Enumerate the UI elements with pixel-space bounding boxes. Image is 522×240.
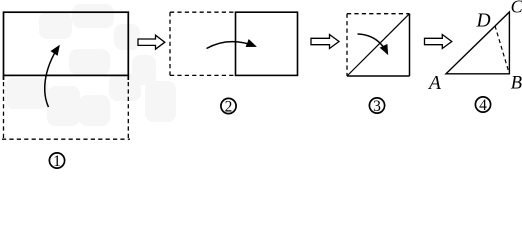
svg-text:D: D bbox=[476, 11, 491, 32]
svg-text:3: 3 bbox=[373, 98, 381, 115]
svg-text:1: 1 bbox=[53, 153, 61, 170]
svg-text:B: B bbox=[511, 74, 522, 94]
svg-text:C: C bbox=[511, 0, 522, 17]
svg-text:4: 4 bbox=[479, 97, 487, 114]
svg-text:A: A bbox=[427, 73, 441, 94]
svg-text:2: 2 bbox=[225, 98, 233, 115]
